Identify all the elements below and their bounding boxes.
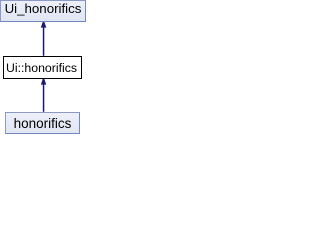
wire inheritance arrow 1 shaft (Ui::honorifics -> Ui_honorifics) [43,27,45,56]
node Ui::honorifics (middle class box) [3,56,82,79]
inheritance arrowhead 2 [41,79,47,85]
inheritance arrowhead 1 [41,22,47,28]
node Ui_honorifics (base class box) [0,0,86,22]
wire inheritance arrow 2 shaft (honorifics -> Ui::honorifics) [43,84,45,112]
node honorifics (derived class box) [5,112,80,134]
